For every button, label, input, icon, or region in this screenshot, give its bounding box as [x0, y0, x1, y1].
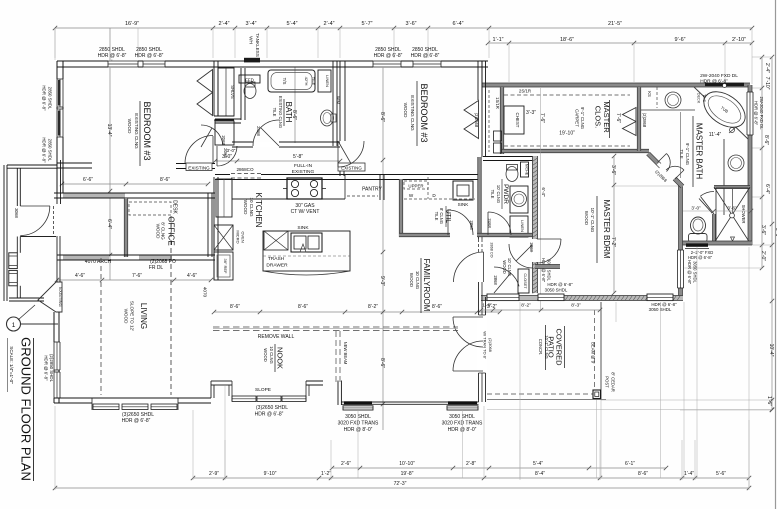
svg-text:3’-6”: 3’-6” [760, 225, 766, 235]
svg-text:8’-4”: 8’-4” [535, 471, 545, 477]
svg-text:WOOD: WOOD [156, 224, 161, 239]
svg-text:7’-6”: 7’-6” [132, 273, 142, 279]
svg-text:SCALE: 1/4”=1’-0”: SCALE: 1/4”=1’-0” [9, 346, 14, 384]
svg-text:10’-10”: 10’-10” [399, 461, 415, 467]
svg-text:9’-6”: 9’-6” [674, 37, 685, 43]
svg-text:HDR @ 6’-8”: HDR @ 6’-8” [42, 137, 47, 163]
svg-text:2S/1R: 2S/1R [519, 89, 531, 94]
svg-text:13’-4”: 13’-4” [106, 124, 112, 137]
svg-text:WOOD: WOOD [403, 103, 408, 118]
svg-text:3’-3”: 3’-3” [526, 110, 536, 116]
svg-text:WH: WH [249, 36, 254, 44]
svg-text:WOOD: WOOD [502, 260, 507, 274]
svg-text:FR DL: FR DL [149, 265, 164, 271]
svg-text:4’-6”: 4’-6” [75, 273, 85, 279]
svg-text:HDR @ 6’-8”: HDR @ 6’-8” [411, 53, 440, 59]
svg-text:3020 FXD TRANS: 3020 FXD TRANS [442, 421, 483, 427]
svg-text:KITCHEN: KITCHEN [254, 192, 263, 227]
svg-text:8’-2”: 8’-2” [521, 303, 531, 309]
svg-text:CT W/ VENT: CT W/ VENT [291, 209, 320, 215]
svg-text:2468: 2468 [487, 218, 492, 228]
svg-text:EXISTING CLNG: EXISTING CLNG [278, 96, 283, 128]
svg-text:8’-6”: 8’-6” [638, 471, 648, 477]
svg-text:BEDROOM #3: BEDROOM #3 [419, 83, 429, 142]
svg-text:36” REF: 36” REF [223, 259, 228, 274]
svg-text:HDR @ 6’-8”: HDR @ 6’-8” [255, 412, 284, 418]
svg-text:2868: 2868 [493, 275, 498, 285]
svg-text:CONCR.: CONCR. [538, 339, 543, 356]
svg-text:HDR @ 8’-0”: HDR @ 8’-0” [448, 427, 477, 433]
svg-text:W: W [409, 193, 414, 198]
svg-text:TILE: TILE [679, 149, 684, 158]
svg-text:HDR @ 6’-8”: HDR @ 6’-8” [754, 101, 759, 126]
svg-text:FAMILYROOM: FAMILYROOM [422, 259, 431, 312]
svg-text:1’-2”: 1’-2” [321, 471, 331, 477]
svg-text:8’-6”: 8’-6” [230, 304, 240, 310]
svg-text:2’-9”: 2’-9” [209, 471, 219, 477]
svg-text:3068: 3068 [14, 208, 19, 218]
svg-text:19’-10”: 19’-10” [559, 131, 575, 137]
svg-text:18’-6”: 18’-6” [560, 37, 574, 43]
svg-text:(2)2868: (2)2868 [642, 113, 647, 128]
svg-text:2’-4”: 2’-4” [764, 63, 770, 73]
svg-text:2868 CO: 2868 CO [490, 242, 494, 257]
svg-text:EXISTING CLNG: EXISTING CLNG [410, 95, 415, 131]
svg-text:DECK: DECK [697, 93, 701, 104]
svg-text:2868: 2868 [469, 220, 474, 230]
svg-text:HDR @ 6’-8”: HDR @ 6’-8” [122, 418, 151, 424]
svg-text:1’-4”: 1’-4” [684, 471, 694, 477]
svg-text:3’-0”: 3’-0” [691, 206, 701, 211]
svg-text:PANTRY: PANTRY [362, 187, 382, 193]
svg-text:9’-10”: 9’-10” [264, 471, 277, 477]
svg-text:TANKLESS: TANKLESS [255, 33, 260, 57]
svg-text:DRAWER: DRAWER [266, 263, 288, 269]
svg-text:2868CO: 2868CO [236, 167, 254, 172]
svg-text:T/S: T/S [282, 78, 287, 85]
svg-text:3’-6”: 3’-6” [405, 21, 416, 27]
svg-text:10’ CLNG: 10’ CLNG [496, 185, 501, 203]
svg-text:WOOD: WOOD [584, 211, 589, 225]
svg-text:3050 SHDL: 3050 SHDL [449, 414, 475, 420]
svg-text:UPPER: UPPER [408, 184, 423, 189]
svg-text:HDR @ 6’-8”: HDR @ 6’-8” [44, 355, 49, 381]
svg-text:PWDR: PWDR [502, 184, 509, 204]
svg-text:HDR @ 6’-8”: HDR @ 6’-8” [547, 282, 573, 287]
svg-text:2’-4”: 2’-4” [218, 21, 229, 27]
svg-text:NICHE: NICHE [525, 164, 529, 176]
svg-text:(3)2650 SHDL: (3)2650 SHDL [256, 405, 288, 411]
svg-text:1: 1 [12, 322, 16, 329]
svg-text:LINEN: LINEN [520, 220, 525, 232]
svg-text:16’-9”: 16’-9” [125, 21, 139, 27]
svg-text:HDR @ 6’-8”: HDR @ 6’-8” [374, 53, 403, 59]
svg-text:SHLVS: SHLVS [230, 85, 235, 99]
svg-text:8’-6”: 8’-6” [432, 304, 442, 310]
svg-text:CLOS.: CLOS. [594, 106, 603, 129]
svg-text:WOOD: WOOD [263, 348, 268, 362]
svg-text:CARPET: CARPET [575, 109, 580, 127]
svg-text:GROUND FLOOR PLAN: GROUND FLOOR PLAN [19, 337, 34, 481]
svg-text:21’-5”: 21’-5” [608, 21, 622, 27]
svg-text:NOOK: NOOK [276, 347, 285, 369]
svg-text:BEAM @ 9’: BEAM @ 9’ [591, 342, 596, 364]
svg-text:3’-6”: 3’-6” [727, 206, 737, 211]
svg-text:KS: KS [647, 91, 652, 97]
svg-text:WOOD: WOOD [124, 309, 129, 324]
svg-text:3’-4”: 3’-4” [245, 21, 256, 27]
svg-text:4070: 4070 [203, 287, 208, 298]
svg-text:72’-3”: 72’-3” [394, 481, 407, 487]
svg-text:6’-4”: 6’-4” [764, 184, 770, 194]
svg-text:MICRO: MICRO [236, 230, 241, 243]
svg-text:W/ TRAN TO 8’: W/ TRAN TO 8’ [483, 331, 488, 359]
svg-text:3’-0”: 3’-0” [227, 148, 236, 153]
svg-text:2’-10”: 2’-10” [732, 37, 746, 43]
svg-text:8’-2”: 8’-2” [368, 304, 378, 310]
svg-text:19’-8”: 19’-8” [401, 471, 414, 477]
svg-text:HDR @ 6’-8”: HDR @ 6’-8” [700, 79, 728, 85]
svg-text:8’-6”: 8’-6” [298, 304, 308, 310]
svg-text:6’-1”: 6’-1” [625, 461, 635, 467]
svg-text:2W-2040 FXD DL: 2W-2040 FXD DL [700, 73, 738, 79]
svg-text:11’-4”: 11’-4” [709, 132, 722, 138]
svg-text:9’-3”: 9’-3” [379, 276, 385, 286]
svg-text:10’-1” CLNG: 10’-1” CLNG [590, 208, 595, 233]
svg-text:EXISTING CLNG: EXISTING CLNG [134, 113, 139, 149]
svg-text:2’-6”: 2’-6” [341, 461, 351, 467]
svg-text:7’-10”: 7’-10” [764, 77, 770, 90]
svg-text:BATH: BATH [284, 102, 293, 123]
svg-text:5’-4”: 5’-4” [533, 461, 543, 467]
svg-text:2068: 2068 [221, 135, 226, 145]
svg-text:8’-6”: 8’-6” [160, 177, 170, 183]
svg-text:1’-1”: 1’-1” [492, 37, 503, 43]
svg-text:TILE: TILE [311, 77, 316, 86]
svg-text:MASTER BDRM: MASTER BDRM [602, 199, 611, 258]
svg-text:EXISTING: EXISTING [58, 287, 63, 307]
svg-text:7’-6”: 7’-6” [539, 113, 545, 123]
svg-text:8’-6”: 8’-6” [379, 358, 385, 368]
svg-text:SLOPE TO 12’: SLOPE TO 12’ [130, 301, 135, 331]
svg-text:DESK: DESK [172, 200, 178, 214]
svg-text:MASTER BATH: MASTER BATH [695, 123, 704, 180]
svg-text:HDR @ 6’-8”: HDR @ 6’-8” [135, 53, 164, 59]
svg-text:2’-0”: 2’-0” [760, 251, 766, 261]
svg-text:3020 FXD TRANS: 3020 FXD TRANS [338, 421, 379, 427]
svg-text:TILE: TILE [702, 94, 706, 102]
svg-text:WOOD: WOOD [409, 273, 414, 287]
svg-text:10 CLNG: 10 CLNG [249, 197, 254, 217]
svg-text:2’-8”: 2’-8” [466, 461, 476, 467]
svg-text:BEDROOM #3: BEDROOM #3 [142, 101, 152, 160]
svg-text:10’-1” CLNG: 10’-1” CLNG [544, 335, 549, 359]
svg-text:5’-6”: 5’-6” [716, 471, 726, 477]
svg-text:5’-7”: 5’-7” [361, 21, 372, 27]
svg-text:8’-6”: 8’-6” [763, 135, 769, 145]
svg-text:LINEN: LINEN [325, 75, 330, 87]
svg-text:SLOPE: SLOPE [255, 387, 271, 393]
svg-text:2850 SHDL: 2850 SHDL [48, 139, 53, 162]
svg-text:2850 SHDL: 2850 SHDL [48, 87, 53, 110]
svg-text:3050 SHDL: 3050 SHDL [547, 259, 552, 281]
svg-text:TILE: TILE [490, 190, 495, 199]
svg-text:8’-3”: 8’-3” [571, 303, 581, 309]
svg-text:SHOWER: SHOWER [741, 205, 746, 224]
svg-text:1’-6”: 1’-6” [482, 303, 492, 309]
svg-text:WOOD: WOOD [127, 119, 132, 134]
svg-text:W/M: W/M [336, 96, 340, 104]
svg-text:42”H: 42”H [304, 77, 309, 86]
svg-text:EXISTING: EXISTING [188, 165, 210, 170]
svg-text:WOOD: WOOD [243, 200, 248, 215]
svg-text:HDR @ 6’-8”: HDR @ 6’-8” [42, 85, 47, 111]
svg-text:HDR @ 6’-8”: HDR @ 6’-8” [687, 260, 692, 285]
svg-text:6’-4”: 6’-4” [106, 219, 112, 229]
svg-text:FULL-IN: FULL-IN [294, 163, 313, 169]
svg-text:(2)2850 SHDL: (2)2850 SHDL [49, 354, 54, 383]
svg-text:TILE: TILE [434, 212, 439, 221]
svg-text:9’-1” CLNG: 9’-1” CLNG [580, 107, 585, 130]
svg-text:3’-6”: 3’-6” [610, 165, 616, 175]
svg-text:(2)2668: (2)2668 [474, 113, 479, 128]
svg-text:POST: POST [605, 376, 610, 388]
svg-text:6’-4”: 6’-4” [541, 187, 546, 197]
svg-text:8’-6”: 8’-6” [379, 112, 385, 122]
svg-text:4’-6”: 4’-6” [187, 273, 197, 279]
svg-text:5’-4”: 5’-4” [286, 21, 297, 27]
svg-text:HDR @ 6’-8”: HDR @ 6’-8” [98, 53, 127, 59]
svg-text:5’-8”: 5’-8” [293, 154, 303, 160]
svg-text:10’-4”: 10’-4” [768, 344, 774, 357]
svg-text:REMOVE WALL: REMOVE WALL [258, 334, 295, 340]
svg-text:(2)3068: (2)3068 [488, 338, 493, 353]
svg-text:UTIL: UTIL [445, 209, 452, 223]
svg-text:NEW BEAM: NEW BEAM [343, 342, 348, 365]
svg-text:9’-1” CLNG: 9’-1” CLNG [685, 143, 690, 166]
svg-text:TILE: TILE [272, 108, 277, 117]
svg-text:2868: 2868 [529, 242, 534, 252]
svg-text:CLOSET: CLOSET [523, 273, 527, 289]
svg-text:3050 SHDL: 3050 SHDL [545, 288, 568, 293]
svg-text:EXISTING: EXISTING [292, 169, 315, 175]
svg-text:LIVING: LIVING [139, 303, 148, 329]
svg-text:8” CEDAR: 8” CEDAR [611, 372, 616, 392]
svg-text:6’-6”: 6’-6” [83, 177, 93, 183]
svg-text:6’-4”: 6’-4” [452, 21, 463, 27]
svg-text:2W-2040 FXD DL: 2W-2040 FXD DL [759, 97, 764, 131]
svg-text:10 CLNG: 10 CLNG [269, 346, 274, 363]
svg-text:TRASH: TRASH [268, 256, 285, 262]
svg-text:SINK: SINK [458, 202, 470, 207]
svg-text:SINK: SINK [297, 225, 309, 231]
svg-text:10 CLNG: 10 CLNG [415, 271, 420, 290]
svg-text:7’-6”: 7’-6” [615, 113, 621, 123]
svg-text:2’-4”: 2’-4” [323, 21, 334, 27]
svg-text:1S/1R: 1S/1R [495, 97, 500, 109]
svg-text:CHEST: CHEST [515, 113, 520, 128]
svg-text:2468: 2468 [256, 126, 261, 136]
